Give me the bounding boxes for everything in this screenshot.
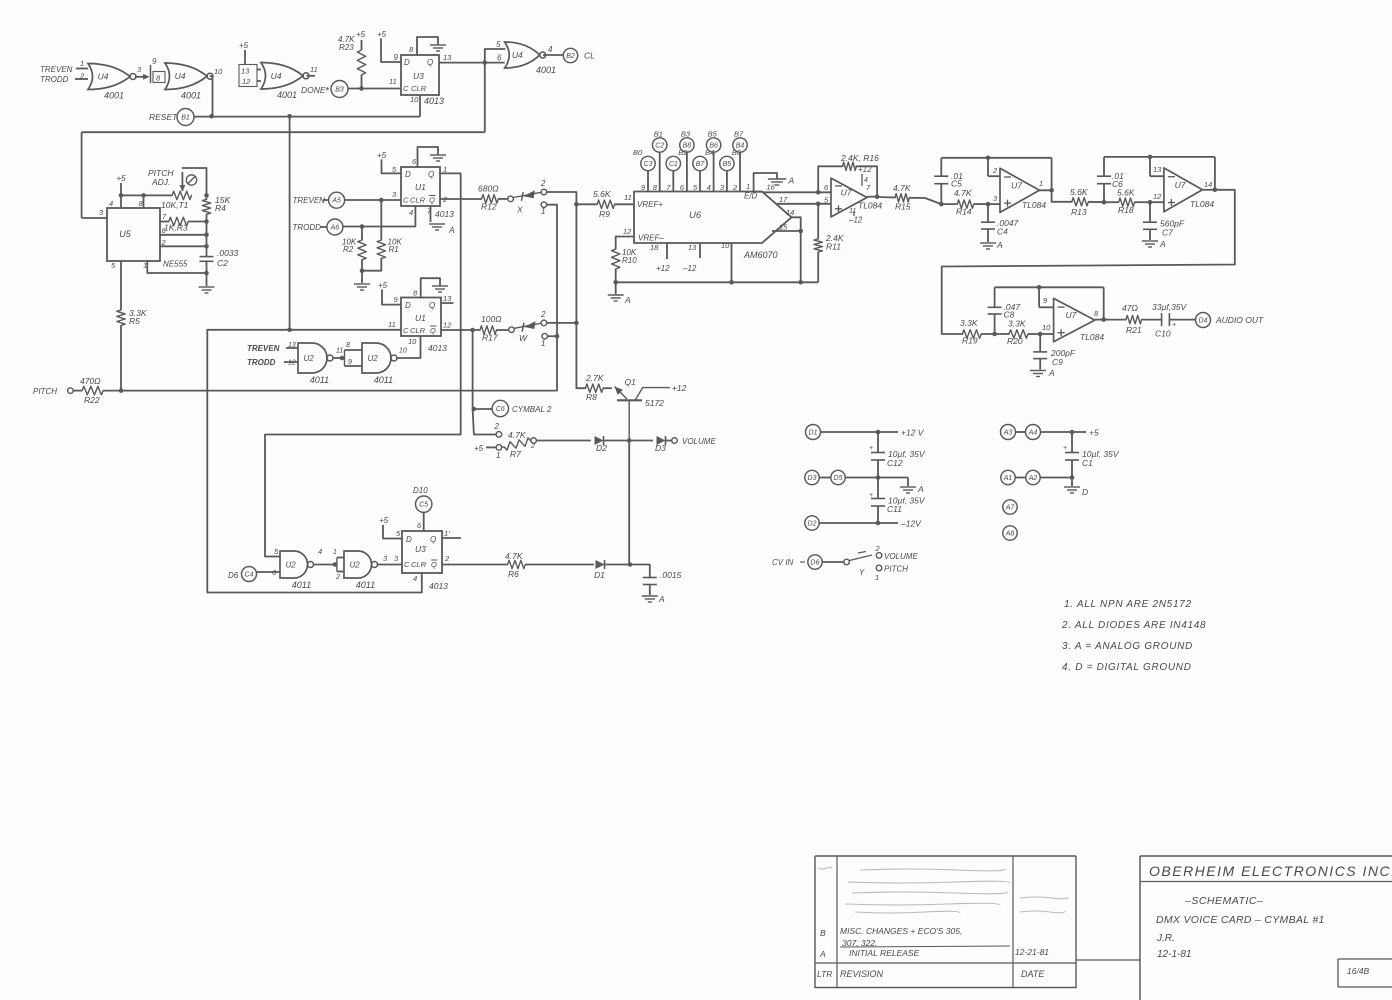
svg-text:6: 6 bbox=[497, 54, 502, 63]
svg-text:CLR: CLR bbox=[410, 326, 426, 335]
flip-flop U3b 4013 bbox=[402, 531, 448, 591]
wire C5 to U3b pin6 bbox=[417, 512, 424, 531]
svg-text:R4: R4 bbox=[215, 203, 226, 213]
switch X blade and arrow bbox=[513, 190, 541, 201]
power +5 for U4c bbox=[239, 41, 249, 65]
svg-text:12: 12 bbox=[288, 360, 296, 367]
svg-text:Q: Q bbox=[428, 170, 434, 179]
svg-text:4013: 4013 bbox=[424, 96, 444, 106]
nor gate U4b tied inputs 9/8 bbox=[151, 57, 166, 83]
dac pin 18 +12 bbox=[650, 243, 670, 273]
svg-text:R5: R5 bbox=[129, 316, 140, 326]
svg-text:+: + bbox=[869, 492, 873, 499]
svg-text:D: D bbox=[405, 170, 411, 179]
cv switch volume terminal bbox=[875, 544, 919, 561]
svg-text:A: A bbox=[658, 594, 665, 604]
svg-text:B5: B5 bbox=[723, 161, 732, 168]
svg-text:R8: R8 bbox=[586, 392, 597, 402]
svg-text:2: 2 bbox=[335, 574, 340, 581]
svg-text:+5: +5 bbox=[377, 151, 387, 160]
svg-text:1: 1 bbox=[746, 182, 750, 191]
svg-text:4001: 4001 bbox=[277, 90, 297, 100]
op-amp U7a TL084 bbox=[824, 178, 882, 217]
svg-text:17: 17 bbox=[779, 195, 788, 204]
svg-text:13: 13 bbox=[241, 67, 250, 76]
svg-text:B: B bbox=[820, 928, 826, 938]
resistor R11 2.4K bbox=[814, 204, 844, 282]
wire U2d out to U3b pin3 bbox=[378, 554, 403, 565]
svg-text:R14: R14 bbox=[956, 207, 972, 217]
svg-text:5172: 5172 bbox=[645, 398, 664, 408]
svg-text:–12V: –12V bbox=[900, 519, 922, 529]
svg-text:33µf,35V: 33µf,35V bbox=[1152, 302, 1188, 312]
svg-text:2: 2 bbox=[992, 166, 998, 175]
nand gate U2a 4011 bbox=[298, 343, 333, 385]
svg-text:D4: D4 bbox=[1199, 318, 1208, 325]
svg-text:AUDIO OUT: AUDIO OUT bbox=[1215, 315, 1264, 325]
svg-text:2: 2 bbox=[494, 422, 500, 431]
svg-text:4.7K: 4.7K bbox=[508, 430, 526, 440]
nand gate U2b 4011 bbox=[362, 343, 397, 385]
svg-text:A: A bbox=[819, 949, 826, 959]
wire U5 out loop to U4d pins 5/6 bbox=[485, 40, 505, 132]
net label CV IN bbox=[772, 558, 805, 567]
svg-text:C2: C2 bbox=[655, 143, 664, 150]
wire R7 to D2 bbox=[536, 440, 590, 442]
svg-text:11: 11 bbox=[389, 77, 397, 86]
svg-text:A: A bbox=[1048, 368, 1055, 378]
net label RESET bbox=[149, 112, 178, 122]
svg-text:.0033: .0033 bbox=[217, 248, 239, 258]
svg-text:4: 4 bbox=[864, 177, 868, 184]
resistor R17 100ohm bbox=[480, 314, 502, 343]
capacitor C7 560pF bbox=[1143, 202, 1185, 240]
flip-flop U1b 4013 bbox=[388, 289, 452, 354]
svg-text:C7: C7 bbox=[1162, 228, 1173, 238]
svg-text:AM6070: AM6070 bbox=[743, 250, 778, 260]
svg-text:R13: R13 bbox=[1071, 207, 1087, 217]
wire RESET B1 to U3 pin 10 bbox=[194, 95, 420, 119]
svg-text:D2: D2 bbox=[596, 443, 607, 453]
svg-text:A6: A6 bbox=[330, 225, 340, 232]
svg-text:1: 1 bbox=[496, 451, 500, 460]
svg-text:PITCH: PITCH bbox=[884, 565, 908, 574]
svg-text:9: 9 bbox=[348, 359, 352, 366]
connector B3 bbox=[331, 81, 348, 98]
svg-text:A3: A3 bbox=[1003, 430, 1013, 437]
stage4 minus input wire bbox=[1039, 287, 1054, 307]
net label D10 bbox=[413, 486, 428, 495]
svg-text:Q: Q bbox=[430, 326, 436, 335]
svg-text:C4: C4 bbox=[245, 572, 254, 579]
svg-text:CL: CL bbox=[584, 51, 595, 61]
svg-text:14: 14 bbox=[1204, 180, 1212, 189]
svg-text:R11: R11 bbox=[826, 242, 841, 252]
svg-text:A4: A4 bbox=[1028, 430, 1038, 437]
svg-text:C: C bbox=[403, 326, 409, 335]
svg-text:U2: U2 bbox=[285, 561, 296, 570]
wire A5 to U1 pin3 bbox=[345, 190, 401, 202]
svg-text:4011: 4011 bbox=[374, 375, 393, 385]
wire VREF- R10 bbox=[616, 227, 634, 249]
net label TREVEN A5 bbox=[293, 196, 329, 205]
capacitor C10 33uF 35V bbox=[1152, 302, 1196, 339]
ground C9 A bbox=[1030, 368, 1055, 378]
svg-text:B7: B7 bbox=[696, 161, 706, 168]
svg-text:REVISION: REVISION bbox=[840, 969, 884, 979]
resistor R23 4.7K bbox=[338, 35, 366, 89]
stage3 minus input wire bbox=[1150, 157, 1164, 176]
wire D2 to D3 bbox=[604, 438, 654, 443]
dac bit input connectors C1-C3 B4-B8 bbox=[633, 130, 747, 193]
svg-text:47Ω: 47Ω bbox=[1122, 303, 1138, 313]
op-amp U7a +12 pin4 bbox=[858, 165, 872, 186]
svg-text:D1: D1 bbox=[594, 570, 605, 580]
svg-text:10: 10 bbox=[399, 348, 407, 355]
revision row B bbox=[820, 926, 962, 948]
svg-text:U4: U4 bbox=[271, 71, 282, 81]
svg-text:4: 4 bbox=[413, 574, 417, 583]
switch X pole bbox=[498, 196, 513, 202]
nand gate U2c 4011 bbox=[280, 551, 314, 590]
svg-text:15: 15 bbox=[779, 223, 788, 232]
svg-text:13: 13 bbox=[443, 53, 452, 62]
svg-text:B0: B0 bbox=[633, 148, 643, 157]
svg-text:Q: Q bbox=[427, 58, 433, 67]
flip-flop U1a 4013 bbox=[392, 157, 454, 219]
svg-text:U4: U4 bbox=[98, 72, 109, 82]
cv switch pole bbox=[822, 559, 849, 565]
svg-text:1': 1' bbox=[444, 529, 450, 538]
svg-text:C9: C9 bbox=[1052, 357, 1063, 367]
svg-text:TRODD: TRODD bbox=[247, 358, 276, 367]
wire D2 to -12V bbox=[819, 519, 922, 529]
svg-text:+5: +5 bbox=[1089, 428, 1099, 438]
wire U1b Q12 out to R17 bbox=[441, 328, 480, 333]
wire B3 to U3 pin 11 bbox=[348, 77, 401, 91]
wire W term1 to pitch bus bbox=[548, 335, 558, 337]
wire A2 to ground D bbox=[1041, 475, 1075, 486]
nor gate U4d (4001) bbox=[505, 42, 556, 75]
wire U5 pin2 bbox=[160, 244, 209, 249]
svg-text:R6: R6 bbox=[508, 569, 519, 579]
svg-text:U7: U7 bbox=[1011, 180, 1022, 190]
svg-text:10: 10 bbox=[1042, 323, 1051, 332]
wire U1a Q1 feedback down bbox=[265, 173, 461, 556]
svg-text:.0015: .0015 bbox=[660, 570, 682, 580]
timer U5 NE555 bbox=[107, 199, 188, 270]
connector C5 bbox=[416, 496, 432, 512]
wire R5 to pitch line bbox=[119, 325, 124, 393]
svg-text:TREVEN: TREVEN bbox=[247, 344, 280, 353]
resistor R18 5.6K bbox=[1104, 188, 1164, 216]
capacitor C9 200pF bbox=[1033, 334, 1076, 370]
svg-text:12-21-81: 12-21-81 bbox=[1015, 947, 1049, 957]
svg-text:2. ALL DIODES ARE IN4148: 2. ALL DIODES ARE IN4148 bbox=[1061, 620, 1206, 631]
svg-text:C5: C5 bbox=[419, 502, 428, 509]
ground for U3 pin 8 bbox=[417, 37, 446, 55]
svg-text:3.3K: 3.3K bbox=[1008, 319, 1026, 329]
svg-text:2.7K: 2.7K bbox=[585, 373, 604, 383]
net label CL bbox=[584, 51, 595, 61]
power +5 R7 bbox=[474, 444, 496, 453]
svg-text:R23: R23 bbox=[339, 43, 354, 52]
switch R7 out terminal bbox=[530, 438, 536, 450]
svg-text:2: 2 bbox=[540, 179, 546, 188]
svg-text:D1: D1 bbox=[809, 430, 818, 437]
wire U5 pin1 to ground bbox=[147, 261, 209, 286]
stage3 top rail bbox=[1104, 155, 1215, 160]
connector D4 bbox=[1196, 313, 1211, 328]
svg-text:4: 4 bbox=[409, 208, 413, 217]
svg-text:11: 11 bbox=[310, 65, 318, 74]
net label TREVEN (U4 pin 1) bbox=[40, 59, 88, 74]
resistor R7 4.7K bbox=[502, 430, 531, 459]
svg-text:Q: Q bbox=[429, 196, 435, 205]
svg-text:LTR: LTR bbox=[817, 969, 832, 979]
capacitor C1 10uF 35V bbox=[1063, 432, 1120, 478]
svg-text:C1: C1 bbox=[1082, 458, 1093, 468]
svg-text:VREF+: VREF+ bbox=[637, 200, 663, 209]
svg-text:4013: 4013 bbox=[429, 581, 448, 591]
switch R7 terminal 2 bbox=[494, 422, 502, 437]
wire U1a Q2 out bbox=[440, 198, 482, 200]
dac pin15 wire bbox=[772, 223, 803, 285]
svg-text:B1: B1 bbox=[654, 130, 663, 139]
power +5 for R23 bbox=[356, 30, 366, 39]
svg-text:R20: R20 bbox=[1007, 336, 1023, 346]
connector A8 bbox=[1003, 526, 1017, 540]
svg-text:A7: A7 bbox=[1005, 505, 1016, 512]
wire A4 to +5 bbox=[1041, 428, 1099, 438]
svg-text:+5: +5 bbox=[474, 444, 484, 453]
svg-text:PITCH: PITCH bbox=[33, 387, 57, 396]
svg-text:CYMBAL 2: CYMBAL 2 bbox=[512, 405, 552, 414]
svg-text:4: 4 bbox=[548, 45, 553, 54]
svg-text:4011: 4011 bbox=[356, 580, 375, 590]
svg-text:U7: U7 bbox=[1175, 180, 1186, 190]
cv switch blade bbox=[849, 552, 872, 561]
svg-text:R1: R1 bbox=[389, 245, 399, 254]
svg-text:CLR: CLR bbox=[410, 196, 426, 205]
diode D3 bbox=[655, 436, 666, 453]
analog rail under DAC bbox=[616, 281, 819, 283]
svg-text:Q1: Q1 bbox=[625, 377, 637, 387]
node stage3 input bbox=[1102, 200, 1107, 205]
svg-text:B8: B8 bbox=[683, 143, 692, 150]
svg-text:U2: U2 bbox=[349, 561, 360, 570]
dac pin16 to opamp bbox=[763, 183, 831, 195]
net label TRODD (U4 pin 2) bbox=[40, 72, 88, 85]
svg-text:4: 4 bbox=[707, 183, 711, 192]
svg-text:13: 13 bbox=[1153, 165, 1162, 174]
svg-text:U6: U6 bbox=[689, 210, 702, 221]
resistor R19 3.3K bbox=[960, 318, 997, 346]
power +5 U3b pin5 bbox=[379, 516, 402, 539]
capacitor C8 .047 bbox=[988, 287, 1021, 334]
svg-text:U7: U7 bbox=[841, 188, 852, 198]
svg-text:12: 12 bbox=[623, 227, 632, 236]
op-amp U7b TL084 bbox=[1000, 168, 1046, 212]
svg-text:D5: D5 bbox=[834, 475, 843, 482]
wire Q1 emitter down to D1 node bbox=[628, 441, 630, 565]
svg-text:OBERHEIM ELECTRONICS INC.: OBERHEIM ELECTRONICS INC. bbox=[1149, 863, 1392, 879]
wire U4c pin 11 stub bbox=[307, 65, 318, 76]
capacitor C5 .01 bbox=[934, 158, 963, 204]
svg-text:3. A = ANALOG GROUND: 3. A = ANALOG GROUND bbox=[1062, 641, 1193, 652]
svg-text:U2: U2 bbox=[303, 354, 314, 363]
svg-text:2: 2 bbox=[732, 183, 738, 192]
ground R10 A bbox=[608, 282, 631, 305]
svg-text:+5: +5 bbox=[378, 281, 388, 290]
resistor R4 15K bbox=[202, 193, 230, 221]
svg-text:C: C bbox=[403, 84, 409, 93]
svg-text:+5: +5 bbox=[239, 41, 249, 50]
wire D3 to VOLUME bbox=[666, 437, 717, 446]
svg-text:C12: C12 bbox=[887, 458, 903, 468]
wire R8 to Q1 base bbox=[603, 387, 612, 389]
svg-text:+: + bbox=[869, 445, 873, 452]
svg-text:10K,T1: 10K,T1 bbox=[161, 200, 189, 210]
resistor R3 1K bbox=[160, 217, 209, 232]
svg-text:TREVEN: TREVEN bbox=[40, 65, 73, 74]
nand gate U2d 4011 bbox=[344, 551, 378, 590]
svg-text:RESET: RESET bbox=[149, 112, 178, 122]
title block connector line bbox=[1076, 959, 1140, 961]
wire U5 pin3 to loop bbox=[82, 132, 107, 218]
svg-text:R22: R22 bbox=[84, 395, 100, 405]
resistor R16 2.4K feedback bbox=[818, 153, 879, 197]
switch W terminal 2 bbox=[540, 310, 547, 326]
svg-text:Q: Q bbox=[429, 301, 435, 310]
wire cymbal2 node bbox=[472, 330, 497, 435]
svg-text:A2: A2 bbox=[1028, 475, 1038, 482]
resistor R1 10K bbox=[360, 200, 403, 273]
nor gate U4b (4001) bbox=[165, 63, 213, 101]
svg-text:R18: R18 bbox=[1118, 205, 1134, 215]
wire W term2 to bus bbox=[547, 321, 579, 326]
wire +5 rail to pot bbox=[121, 193, 172, 208]
svg-text:MISC. CHANGES + ECO'S 305,: MISC. CHANGES + ECO'S 305, bbox=[840, 926, 962, 936]
svg-text:4001: 4001 bbox=[104, 91, 124, 101]
connector A7 bbox=[1003, 500, 1017, 514]
svg-text:DONE: DONE bbox=[301, 85, 326, 95]
capacitor C2 .0033 bbox=[200, 246, 239, 273]
net label PITCH bbox=[33, 387, 57, 396]
svg-text:4001: 4001 bbox=[536, 65, 556, 75]
svg-text:100Ω: 100Ω bbox=[481, 314, 502, 324]
resistor R5 3.3K bbox=[117, 308, 147, 326]
wire U1a pin7 ground A bbox=[429, 206, 455, 235]
ground cap A bbox=[642, 594, 665, 604]
connector B2 bbox=[563, 48, 577, 62]
svg-text:2.4K, R16: 2.4K, R16 bbox=[840, 153, 879, 163]
svg-text:C6: C6 bbox=[496, 406, 505, 413]
switch W terminal 1 bbox=[541, 333, 548, 348]
wire U5 pin5 down bbox=[120, 261, 122, 310]
svg-text:DATE: DATE bbox=[1021, 969, 1045, 979]
svg-text:TL084: TL084 bbox=[1190, 199, 1214, 209]
svg-text:R10: R10 bbox=[622, 256, 637, 265]
dac U6 AM6070 bbox=[634, 192, 792, 261]
svg-text:–12: –12 bbox=[848, 216, 863, 225]
svg-text:D10: D10 bbox=[413, 486, 428, 495]
svg-text:1: 1 bbox=[541, 207, 545, 216]
op-amp U7a -12 pin11 bbox=[848, 208, 863, 225]
switch R7 terminal 1 bbox=[496, 445, 502, 460]
resistor R6 4.7K bbox=[505, 551, 525, 579]
svg-text:A: A bbox=[448, 225, 455, 235]
wire 555 loop horizontal bbox=[82, 131, 485, 133]
svg-text:2: 2 bbox=[875, 544, 881, 553]
net label TRODD U2 12 bbox=[247, 358, 298, 367]
connector C4 bbox=[242, 567, 257, 582]
svg-text:W: W bbox=[519, 333, 528, 343]
wire U2a out to U2b in bbox=[333, 342, 362, 366]
svg-text:+5: +5 bbox=[117, 174, 127, 183]
svg-text:4001: 4001 bbox=[181, 91, 201, 101]
wire D5 to ground A bbox=[845, 475, 908, 486]
svg-text:18: 18 bbox=[650, 243, 659, 252]
nor gate U4a (4001) bbox=[88, 64, 136, 101]
capacitor C12 10uF 35V bbox=[869, 432, 926, 478]
wire U3b Qbar out bbox=[442, 554, 508, 565]
svg-text:U2: U2 bbox=[367, 354, 378, 363]
svg-text:1. ALL NPN ARE 2N5172: 1. ALL NPN ARE 2N5172 bbox=[1064, 599, 1192, 610]
svg-text:+12: +12 bbox=[656, 264, 670, 273]
power +5 for U1a pin5 bbox=[377, 151, 401, 173]
wire U4a out to U4b in bbox=[135, 65, 150, 80]
nor gate U4c (4001) bbox=[261, 63, 309, 101]
note 3 bbox=[1062, 641, 1193, 652]
ground R1 R2 bbox=[354, 271, 370, 290]
svg-text:A1: A1 bbox=[1003, 475, 1013, 482]
net label DONE* bbox=[301, 85, 330, 97]
svg-text:U4: U4 bbox=[175, 71, 186, 81]
stage2 top rail bbox=[941, 156, 1051, 161]
svg-text:–12: –12 bbox=[682, 264, 697, 273]
svg-text:X: X bbox=[516, 205, 523, 215]
svg-text:11: 11 bbox=[849, 208, 856, 215]
title DMX VOICE CARD CYMBAL#1 bbox=[1156, 914, 1325, 926]
connector A4 power bbox=[1016, 425, 1041, 440]
wire U5 pin6 bbox=[160, 222, 209, 247]
pencil smudges bbox=[818, 867, 1068, 913]
svg-text:TL084: TL084 bbox=[1022, 200, 1046, 210]
svg-text:+5: +5 bbox=[377, 30, 387, 39]
svg-text:5: 5 bbox=[496, 40, 501, 49]
revision header bbox=[817, 969, 1045, 979]
svg-text:B5: B5 bbox=[708, 130, 718, 139]
svg-text:4013: 4013 bbox=[435, 209, 454, 219]
resistor R22 470ohm bbox=[73, 376, 103, 405]
svg-text:A8: A8 bbox=[1005, 531, 1015, 538]
dac E/D pin1 ground bbox=[746, 173, 795, 192]
svg-text:13: 13 bbox=[688, 243, 697, 252]
wire U4d out to B2 bbox=[543, 45, 563, 55]
ground C7 A bbox=[1142, 239, 1166, 249]
potentiometer 10K T1 bbox=[161, 168, 207, 210]
svg-text:DMX VOICE CARD – CYMBAL #1: DMX VOICE CARD – CYMBAL #1 bbox=[1156, 914, 1325, 926]
svg-text:U1: U1 bbox=[415, 182, 426, 192]
svg-text:4.7K: 4.7K bbox=[893, 183, 911, 193]
svg-text:1: 1 bbox=[333, 549, 337, 556]
capacitor C4 .0047 bbox=[981, 204, 1019, 242]
dac pin17 to opamp bbox=[777, 195, 831, 206]
stage2 minus input wire bbox=[988, 158, 1000, 176]
resistor R12 680ohm bbox=[478, 184, 499, 212]
title JR bbox=[1156, 933, 1175, 944]
